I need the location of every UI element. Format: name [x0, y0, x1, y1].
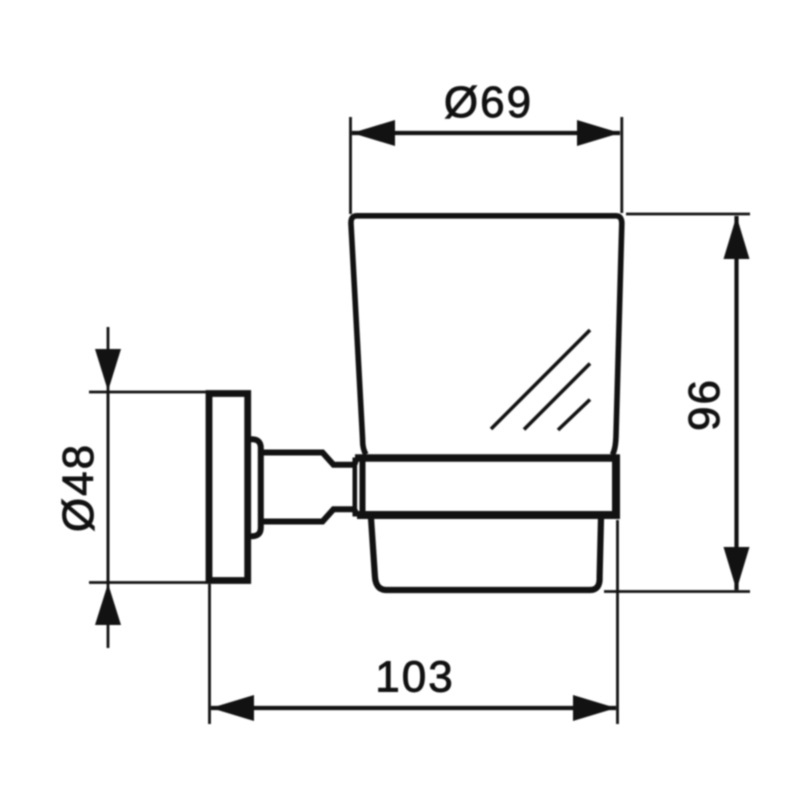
holder ring right edge [612, 455, 620, 520]
support arm (post) top contour [261, 453, 356, 465]
glass shine hatch line 2 [524, 364, 590, 430]
dimension Ø69 extension line right [620, 117, 623, 213]
svg-text:Ø48: Ø48 [54, 443, 103, 532]
dimension Ø48 arrow top [95, 349, 121, 391]
glass tumbler upper outline [351, 216, 622, 455]
dimension 96 arrow top [724, 216, 750, 259]
support arm (post) bottom contour [261, 509, 356, 521]
holder ring top edge [355, 454, 620, 462]
arm collar at ring [352, 458, 357, 517]
glass tumbler lower outline [371, 518, 601, 590]
glass shine hatch line 1 [491, 330, 590, 429]
dimension 96 dimension line [734, 216, 738, 590]
glass shine hatch line 3 [558, 400, 590, 431]
dimension 103 extension line left [208, 584, 211, 724]
svg-text:Ø69: Ø69 [444, 78, 533, 127]
holder ring left edge [360, 455, 366, 519]
dimension 103 extension line right [616, 520, 619, 724]
mounting hub tab on flange [248, 439, 261, 536]
svg-text:96: 96 [680, 378, 729, 431]
dimension 103 arrow left [211, 695, 254, 721]
dimension Ø48 extension line bottom [89, 581, 207, 584]
dimension Ø69 extension line left [349, 117, 352, 214]
dimension 96 arrow bottom [724, 547, 750, 590]
svg-text:103: 103 [375, 653, 454, 702]
dimension 103 arrow right [573, 695, 616, 721]
wall plate body (side view, thin outline) [107, 392, 110, 583]
dimension Ø48 extension line top [89, 391, 207, 394]
dimension Ø69 dimension line [352, 131, 620, 135]
dimension 103 dimension line [211, 706, 616, 710]
dimension Ø69 arrow left [352, 120, 395, 146]
holder ring bottom edge [357, 511, 620, 519]
dimension Ø69 arrow right [577, 120, 620, 146]
dimension Ø48 arrow bottom [95, 584, 121, 626]
wall plate front flange (thick rectangle) [209, 394, 248, 581]
dimension Ø48 dimension line [107, 327, 110, 648]
dimension 96 extension line top [626, 213, 750, 216]
dimension 96 extension line bottom [604, 590, 750, 593]
